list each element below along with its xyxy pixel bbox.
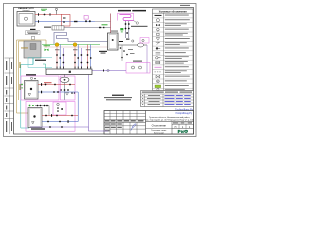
staff rows smudges xyxy=(105,124,122,132)
green note near supply xyxy=(41,8,47,11)
boiler outlet pipework xyxy=(118,44,138,46)
pump zone boundary (pink) xyxy=(61,76,76,100)
left column vertical text smudges xyxy=(6,61,12,132)
wall boiler xyxy=(108,33,119,50)
contacts rows: names grey, values blue xyxy=(142,95,161,105)
inner drawing frame xyxy=(14,8,194,135)
violet riser right of manifold xyxy=(88,75,90,128)
riser valves xyxy=(56,54,91,63)
left grid horizontals xyxy=(104,114,146,130)
pipe red sample xyxy=(156,57,158,59)
B1 supply red xyxy=(38,84,75,86)
B1 return blue xyxy=(38,91,78,93)
valves under coil xyxy=(126,21,129,38)
svg-text:пос. Горняцкий, ул. 40 «Передо: пос. Горняцкий, ул. 40 «Передовик Яхар"а… xyxy=(145,119,194,122)
green-yellow block xyxy=(155,85,161,88)
teal stub from cabinet bottom xyxy=(32,58,34,65)
signature squiggle xyxy=(131,124,136,131)
instrument cluster with pink cap xyxy=(84,16,88,20)
svg-text:П: П xyxy=(175,126,177,129)
svg-text:ГосАрхФонд.Ру: ГосАрхФонд.Ру xyxy=(176,112,193,115)
B2 mixing sub-box (pink) xyxy=(53,102,66,115)
manifold xyxy=(46,69,92,75)
cable runs (olive) xyxy=(17,40,47,113)
green drain glyph xyxy=(120,28,123,30)
risers group 1 xyxy=(57,45,63,70)
ITP cabinet U1 xyxy=(17,12,35,27)
blue drop line right xyxy=(146,45,148,73)
three-way valve xyxy=(156,24,160,26)
B1 top gauge xyxy=(30,77,32,79)
strainer under pump xyxy=(60,89,75,95)
radiator symbol xyxy=(44,26,64,30)
blue interzone riser xyxy=(77,92,79,122)
pipe dashed sample xyxy=(155,71,162,73)
svg-text:Котельной: Котельной xyxy=(154,131,164,134)
light pink line to boiler xyxy=(44,46,110,48)
gas line (dark) xyxy=(60,27,111,29)
legend row dividers xyxy=(153,18,194,89)
return pipe (blue) from ITP xyxy=(35,21,95,23)
expansion module pink boundary xyxy=(118,13,134,20)
boiler B1 xyxy=(25,81,39,100)
green header line xyxy=(42,44,100,46)
riser tiny labels xyxy=(55,48,90,51)
boiler zone 2 boundary (pink) xyxy=(26,102,75,132)
circle pump xyxy=(156,19,159,22)
sheet outer border xyxy=(4,4,197,137)
supply pipe (red) from ITP xyxy=(35,14,62,16)
mixing unit red box xyxy=(62,15,71,27)
legend symbols xyxy=(155,15,162,91)
svg-text:Отопление: Отопление xyxy=(152,124,167,128)
title block xyxy=(104,111,195,135)
svg-text:Условные обозначения: Условные обозначения xyxy=(159,10,187,13)
flex conn xyxy=(156,53,161,54)
riser shutoff ticks above manifold xyxy=(57,67,92,69)
B2 green fittings xyxy=(29,105,31,107)
left stamps column xyxy=(5,58,14,134)
note text bottom middle xyxy=(104,95,132,101)
contacts table xyxy=(141,91,194,107)
last symbol circle xyxy=(157,88,159,90)
valve on return xyxy=(38,20,39,22)
manifold pump xyxy=(64,75,66,78)
header text above right block xyxy=(118,10,131,12)
header row text smudge (Изм Кол.уч Лист №док Подп Дата) xyxy=(105,120,144,121)
control cabinet label xyxy=(26,31,41,35)
teal sensor line from cabinet xyxy=(21,58,33,128)
risers group 2 xyxy=(75,45,81,70)
B2 supply red xyxy=(42,115,78,117)
risers group 3 xyxy=(88,45,91,70)
magenta coil xyxy=(120,15,134,21)
B2 return blue xyxy=(42,121,78,123)
valves on supply xyxy=(38,13,51,15)
thermometer xyxy=(157,28,160,31)
teal sample xyxy=(156,75,160,78)
stage grid xyxy=(171,122,173,135)
svg-text:РиФ: РиФ xyxy=(178,129,189,134)
boiler B2 xyxy=(28,108,42,128)
riser to boiler (dark red) xyxy=(110,14,112,34)
fittings under boiler xyxy=(119,39,144,59)
contacts header smudge xyxy=(142,92,164,93)
left grid verticals xyxy=(110,111,146,135)
strainer xyxy=(156,42,160,44)
pump P3 xyxy=(138,43,144,47)
green valve at cabinet right xyxy=(45,49,49,52)
legend description text smudges xyxy=(165,15,190,90)
green elbow into manifold xyxy=(43,64,46,69)
pipe magenta sample xyxy=(155,66,162,68)
pump circles yellow xyxy=(55,43,59,47)
B2 violet line xyxy=(30,126,89,128)
gauge tee on supply xyxy=(56,10,58,15)
copy number mark top-right margin xyxy=(180,4,190,7)
check valve xyxy=(156,47,158,49)
svg-text:Тульская область, Новомосковск: Тульская область, Новомосковский район, xyxy=(149,116,190,119)
violet link manifold to DHW xyxy=(92,70,126,72)
B1 green fittings xyxy=(21,84,23,86)
DHW unit pink box xyxy=(126,63,150,74)
legend table xyxy=(153,9,194,91)
auto air vent xyxy=(157,33,159,35)
floor heating coil xyxy=(54,33,108,45)
underfloor zone teal box xyxy=(28,58,52,68)
boiler zone 1 boundary (pink) xyxy=(21,76,59,100)
olive sample xyxy=(157,80,160,83)
valve bowtie xyxy=(155,15,162,16)
control cabinet (grey) xyxy=(24,41,41,58)
safety valve xyxy=(156,38,159,41)
GVS mini zone pink xyxy=(140,38,149,44)
pipe blue sample xyxy=(156,61,160,63)
B2 top connector line xyxy=(35,105,49,107)
sensor circle + automation note xyxy=(134,21,137,23)
violet drop and bottom run xyxy=(89,127,109,131)
